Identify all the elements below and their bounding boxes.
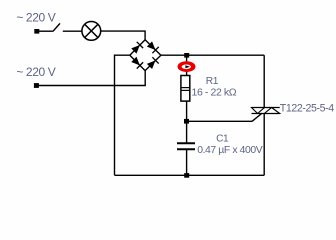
bridge rectifier diamond — [130, 40, 161, 71]
resistor R1 — [181, 76, 190, 102]
wire lamp to bridge top corner — [101, 31, 145, 40]
svg-text:~ 220 V: ~ 220 V — [16, 11, 55, 25]
wire bridge left corner to left rail — [115, 55, 130, 175]
node junction bottom rail — [184, 173, 189, 178]
wire junction down through highlight to R1 — [186, 55, 188, 75]
diode VD bottom-left (arrow to bottom corner) — [131, 56, 143, 68]
capacitor C1 — [177, 143, 195, 149]
diode VD top-left (arrow to top corner) — [131, 42, 143, 54]
thyristor VS1 T122-25-5-4 (triac symbol) — [252, 108, 280, 114]
wire R1 bottom to gate node — [186, 101, 188, 121]
node junction top of R1 — [184, 53, 189, 58]
wire DC+ top rail (bridge right corner to right bend) — [161, 54, 264, 56]
highlight red ellipse inner hole — [182, 65, 191, 70]
wire thyristor anode drop — [263, 55, 265, 108]
svg-text:R1: R1 — [206, 76, 219, 87]
svg-text:~ 220 V: ~ 220 V — [16, 65, 55, 79]
wire capacitor to bottom node — [186, 149, 188, 175]
wire gate diagonal — [252, 113, 262, 121]
node junction gate — [184, 119, 189, 124]
lamp HL1 — [82, 22, 101, 41]
wire thyristor cathode to bottom rail — [263, 113, 265, 175]
AC terminal X2 — [34, 83, 39, 88]
wire gate node down to capacitor — [186, 121, 188, 143]
highlight marker arrow — [185, 65, 190, 68]
switch SA1 blade — [53, 23, 60, 31]
svg-text:T122-25-5-4: T122-25-5-4 — [280, 103, 334, 115]
wire gate run — [187, 120, 252, 122]
diode VD bottom-right (arrow to right corner) — [146, 57, 158, 69]
svg-text:16 - 22 kΩ: 16 - 22 kΩ — [192, 86, 237, 98]
svg-text:C1: C1 — [216, 133, 229, 144]
highlight red ellipse — [178, 61, 196, 72]
wire switch fixed contact to lamp — [63, 30, 82, 32]
svg-text:0.47 µF x 400V: 0.47 µF x 400V — [197, 145, 263, 156]
diode VD top-right (arrow to right corner) — [146, 41, 158, 53]
wire terminal X1 to switch pivot — [38, 30, 53, 32]
wire bottom rail — [115, 174, 265, 176]
wire terminal X2 to bridge bottom corner — [38, 71, 145, 86]
AC terminal X1 — [34, 29, 39, 34]
